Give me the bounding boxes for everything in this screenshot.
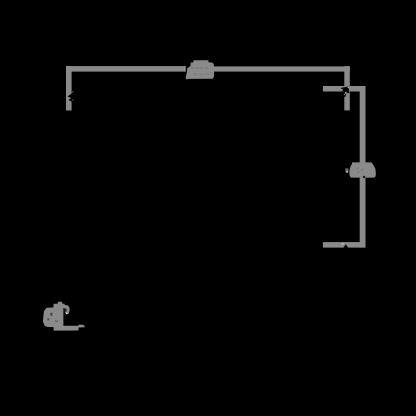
component V1 (bottom-left blob) xyxy=(43,302,85,331)
notch marks on left vertical wire xyxy=(68,91,74,101)
wire horizontal 2 (upper right) xyxy=(323,86,366,92)
wire bottom stub xyxy=(323,242,366,248)
component R1 (right, on vertical wire 2) xyxy=(345,162,375,178)
component U1 (top, on top wire) xyxy=(186,60,214,79)
notch mark on bottom stub xyxy=(342,243,349,247)
wire top horizontal left segment xyxy=(66,66,186,72)
wire left vertical xyxy=(66,66,72,110)
mouse cursor at junction xyxy=(341,86,349,97)
wire top horizontal right segment xyxy=(213,66,349,71)
wire right vertical 2 xyxy=(360,86,366,248)
wire right vertical stub 1 xyxy=(344,66,350,110)
